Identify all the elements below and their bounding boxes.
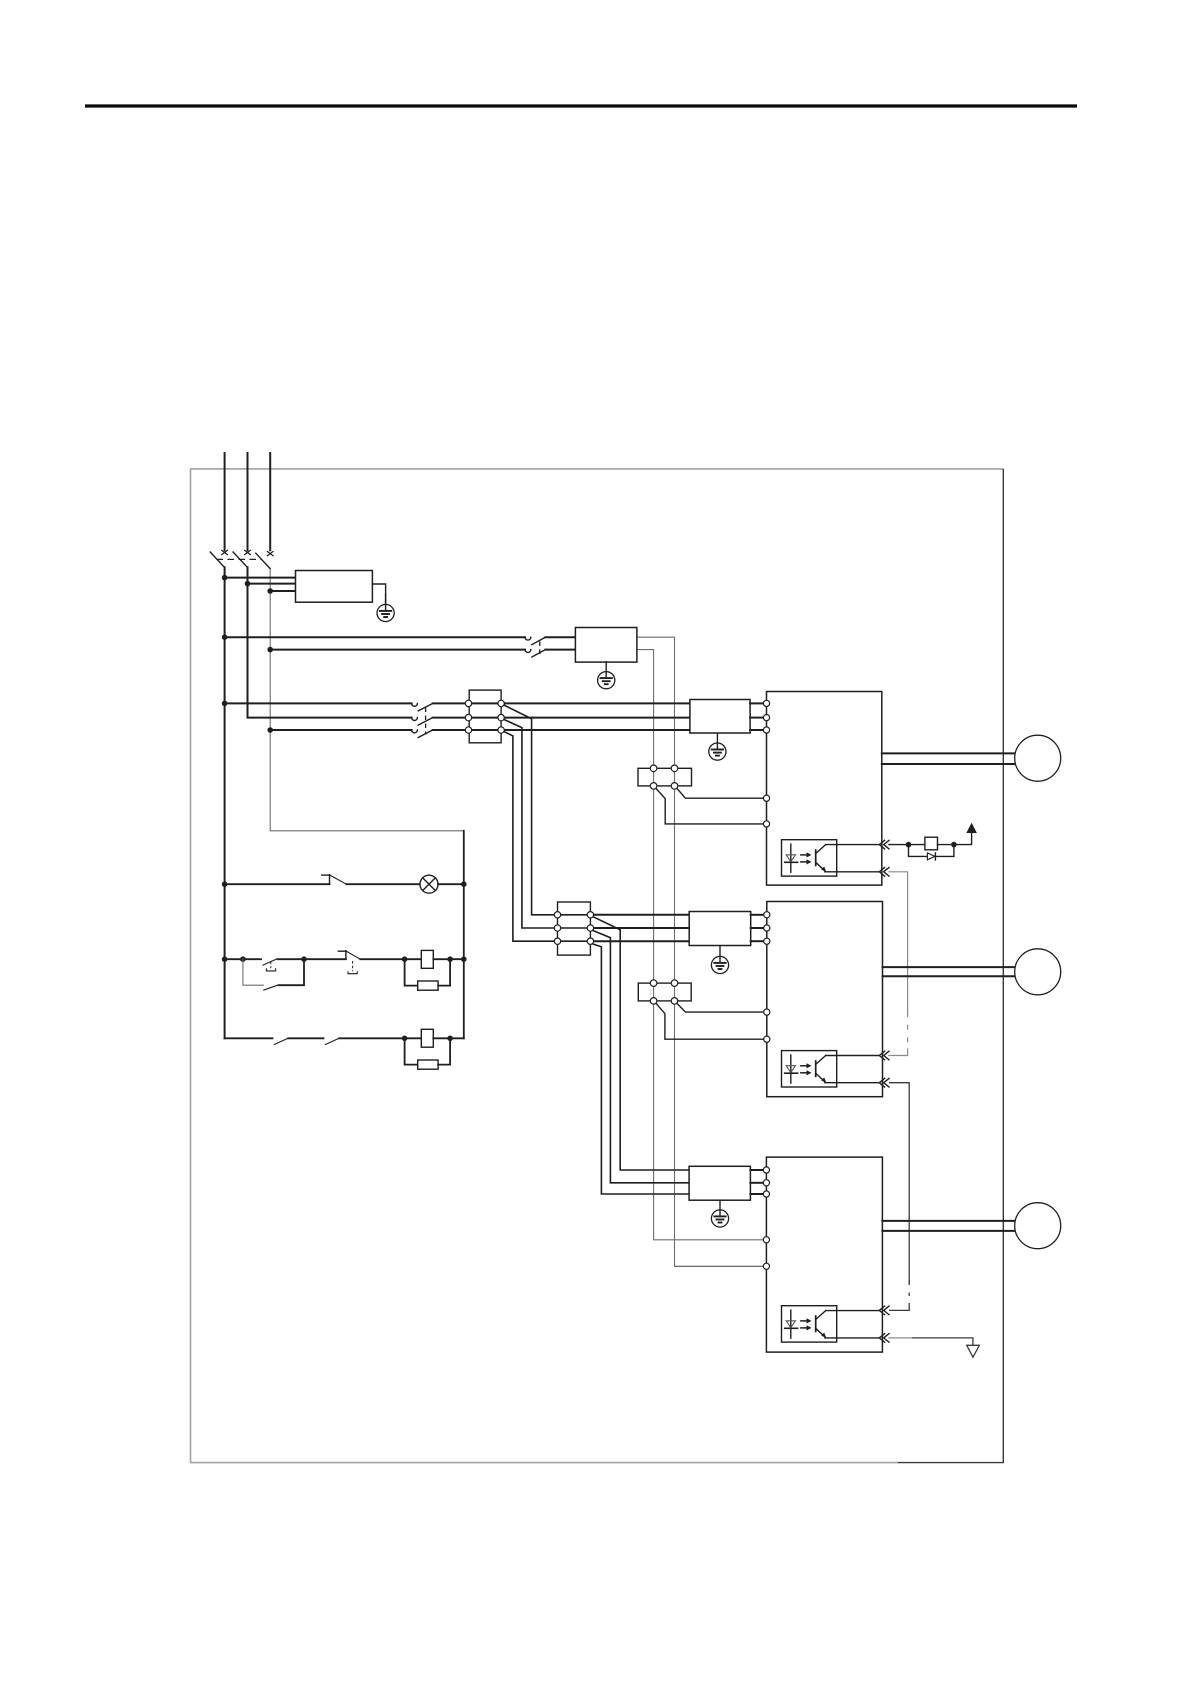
brake power supply unit [575, 628, 637, 663]
wire: brake supply cable A down to connector CN2 [674, 789, 676, 980]
row 3 wire middle 1 [288, 1037, 323, 1039]
TB1 terminal L1 in [465, 700, 471, 706]
power line L1 (top lead-in) [224, 453, 226, 550]
wire: A2 ALM- daisy link to A3 [889, 1083, 909, 1285]
relay coil RY1 [925, 837, 938, 850]
contactor KM2 pole 1 [525, 637, 575, 645]
wire: row B line 3 (L3 to contactor) [270, 729, 411, 731]
wire: SA2 to node [438, 1038, 450, 1064]
A1 terminal control 2 [763, 821, 769, 827]
input arrow A2 ALM+ [879, 1051, 889, 1060]
row 3 wire to coil [339, 1037, 421, 1039]
circuit breaker QF pole 1 [210, 550, 228, 567]
wire: RY1 to +24V [938, 833, 972, 844]
wire: A2 opto emitter to terminal [825, 1082, 880, 1084]
servo amplifier A3 [766, 1157, 882, 1352]
node: L2 filter tap [245, 581, 251, 587]
TB1 terminal out 3 [498, 727, 504, 733]
node: RY1 left [906, 842, 912, 848]
TB2 terminal in 2 [554, 925, 560, 931]
row 3 wire left [225, 1037, 273, 1039]
amplifier A3 filter box [689, 1166, 750, 1200]
row 2 wire left [225, 958, 261, 960]
node: L1 filter tap [222, 575, 228, 581]
splitter block TB2 [558, 902, 591, 955]
wire: A3 opto emitter to terminal [825, 1337, 880, 1339]
circuit breaker QF pole 2 [233, 550, 251, 567]
CN2 terminal bottom B [671, 998, 678, 1005]
flyback diode branch [909, 845, 927, 857]
A1 terminal L1 [763, 700, 769, 706]
A3 terminal L1 [763, 1167, 769, 1173]
node: row2 right rail [461, 956, 467, 962]
connector CN1 [638, 768, 692, 786]
node: row3 surge right [447, 1036, 453, 1042]
terminal block TB1 [469, 690, 501, 743]
input arrow A3 ALM- [879, 1334, 889, 1343]
wire: TB1 to amp1 filter line 2 [505, 717, 690, 719]
wire: A1 motor lead V [882, 763, 1016, 765]
node: row2 left rail [222, 956, 228, 962]
A2 terminal L2 [764, 925, 770, 931]
node: row2 branch left [240, 956, 246, 962]
wire: A1 opto collector to terminal [826, 844, 880, 846]
contactor KM1 pole 1 [412, 703, 505, 711]
ground: amp2 filter [711, 947, 728, 974]
wire: CN2 to amp2 control input 2 [656, 1004, 764, 1040]
wire: amp3 filter out 1 [750, 1169, 763, 1171]
flyback diode D1 [927, 853, 935, 860]
TB1 terminal L3 in [465, 727, 471, 733]
lamp row wire right [438, 883, 464, 885]
enclosure border (panel outline) [191, 469, 1004, 1463]
wire: control branch row A line 1 [225, 636, 525, 638]
ground: amp1 filter [709, 733, 726, 760]
NC contact S1 (lamp row) [322, 875, 347, 885]
A2 terminal control 1 [764, 1009, 770, 1015]
wire: CN1 to amp1 control input 1 [677, 789, 764, 799]
A1 terminal L2 [763, 715, 769, 721]
relay coil RY2 [421, 950, 433, 968]
lamp row wire left [225, 883, 330, 885]
row 3 wire right [433, 1037, 464, 1039]
TB1 terminal out 1 [498, 700, 504, 706]
power line L1 vertical (breaker to ladder) [224, 567, 226, 1038]
wire: SA1 to node [438, 959, 450, 985]
motor M3 [1015, 1203, 1061, 1249]
wire: A1 opto emitter to terminal [825, 871, 880, 873]
TB2 terminal out 3 [587, 938, 593, 944]
CN1 terminal top B [671, 765, 678, 772]
contactor KM2 pole 2 [525, 650, 575, 658]
wire: brake supply cable A through connector CN1 [674, 771, 676, 782]
surge absorber SA1 [418, 981, 438, 990]
wire: TB1 to amp1 filter line 1 [505, 702, 690, 704]
ground: amp3 filter [711, 1200, 728, 1227]
wire: TB1 to amp1 filter line 3 [505, 729, 690, 731]
wire: A1 ALM- daisy link to A2 [889, 872, 908, 1013]
opto coupler A1 output [782, 840, 837, 876]
wire: filter feed R [225, 577, 296, 579]
A3 terminal L3 [763, 1191, 769, 1197]
row 2 wire to coil [360, 958, 421, 960]
row 2 wire right [433, 958, 464, 960]
A3 terminal L2 [763, 1180, 769, 1186]
node: row3 surge left [402, 1036, 408, 1042]
pilot lamp PL [420, 875, 438, 893]
contactor coil KM [421, 1029, 433, 1047]
wire: A2 opto collector to terminal [826, 1055, 880, 1057]
power line L2 vertical (breaker to contactor) [248, 567, 412, 717]
ground: brake power supply [598, 662, 615, 689]
contactor KM2 linkage [539, 642, 541, 655]
amplifier A1 filter box [690, 700, 750, 734]
input arrow A3 ALM+ [879, 1306, 889, 1315]
header rule [85, 104, 1077, 107]
A2 terminal L1 [764, 912, 770, 918]
A1 terminal L3 [763, 727, 769, 733]
wire: brake supply cable A down to amplifier A3 [674, 1004, 676, 1266]
input arrow A1 ALM+ [879, 840, 889, 849]
node: L3 filter tap [267, 588, 273, 594]
0V signal ground [967, 1345, 980, 1357]
wire: TB2 to amp2 filter line 1 [594, 914, 689, 916]
wire: A1-A2 daisy dashed section [907, 1013, 909, 1049]
node: row B tap on L3 [267, 727, 273, 733]
circuit breaker QF linkage [217, 558, 262, 560]
surge absorber SA2 branch [405, 1038, 418, 1064]
wire: TB2 drop to amp3 phase R [593, 917, 689, 1170]
control rail right (from L3 feed) [463, 831, 465, 1039]
contactor KM1 pole 2 [412, 718, 505, 726]
circuit breaker QF pole 3 [256, 551, 274, 568]
node: row2 branch right [301, 956, 307, 962]
node: RY1 right [951, 842, 957, 848]
wire: TB2 drop to amp3 phase T [593, 944, 689, 1194]
CN2 terminal bottom A [650, 998, 657, 1005]
node: row2 surge left [402, 956, 408, 962]
wire: TB1 drop to TB2 phase T [504, 732, 594, 942]
wire: brake supply cable A through connector CN2 [674, 986, 676, 998]
noise filter FLT [296, 571, 373, 603]
pushbutton PB1 (start, NO) [263, 959, 278, 971]
node: lamp row left rail [222, 881, 228, 887]
ground: noise filter [377, 595, 394, 622]
node: row A tap on L3 [267, 647, 273, 653]
wire: A1-A2 daisy into A2 ALM+ [889, 1049, 908, 1056]
motor M1 [1015, 735, 1061, 781]
wire: A3 motor lead V [882, 1230, 1015, 1232]
wire: A2-A3 daisy into A3 ALM+ [889, 1303, 909, 1310]
wire: TB1 drop to TB2 phase S [504, 720, 594, 929]
opto coupler A3 output [782, 1306, 837, 1342]
wire: diode to RY1 right node [935, 845, 954, 857]
wire: CN2 to amp2 control input 1 [677, 1004, 764, 1013]
opto coupler A2 output [782, 1051, 837, 1087]
wire: TB1 drop to TB2 phase R [504, 705, 594, 915]
wire: A2-A3 daisy dashed section [908, 1280, 910, 1303]
relay coil RY1 circuit: wire from A1 ALM+ [889, 844, 925, 846]
wire: amp1 filter out 2 [750, 717, 763, 719]
wire: amp1 filter out 3 [750, 729, 763, 731]
wire: A3 motor lead U [882, 1220, 1015, 1222]
wire: amp3 filter out 2 [750, 1182, 763, 1184]
pushbutton PB2 (stop, NC) [338, 951, 360, 974]
wire: CN1 to amp1 control input 2 [656, 789, 763, 824]
CN1 terminal bottom A [650, 783, 657, 790]
contactor KM1 linkage [425, 708, 427, 735]
CN2 terminal top A [650, 980, 657, 987]
motor M2 [1015, 949, 1061, 995]
wire: row B line 1 (L1 to contactor) [225, 702, 412, 704]
TB2 terminal out 2 [587, 925, 593, 931]
+24V supply arrow [966, 823, 977, 833]
interlock contact K2 (row 3) [325, 1038, 340, 1045]
self-hold contact branch [243, 959, 304, 990]
TB2 terminal in 3 [554, 938, 560, 944]
amplifier A2 filter box [689, 912, 751, 946]
wire: filter feed T [270, 590, 295, 592]
wire: brake supply cable B down to connector CN2 [653, 789, 655, 980]
servo amplifier A2 [767, 902, 883, 1097]
wire: A3 opto collector to terminal [826, 1310, 880, 1312]
TB2 terminal in 1 [554, 912, 560, 918]
servo amplifier A1 [767, 692, 882, 886]
wire: A1 motor lead U [882, 752, 1016, 754]
wire: brake supply cable B through connector CN2 [653, 986, 655, 998]
wire: TB2 to amp2 filter line 2 [594, 927, 689, 929]
wire: brake supply cable A (outer) [637, 637, 675, 765]
wire: amp3 filter out 3 [750, 1193, 763, 1195]
wire: amp2 filter out 1 [751, 914, 764, 916]
TB1 terminal out 2 [498, 714, 504, 720]
wire: noise filter earth lead [372, 584, 385, 605]
input arrow A2 ALM- [879, 1078, 889, 1087]
wire: A3 ALM- to 0V [889, 1337, 912, 1339]
CN1 terminal bottom B [671, 783, 678, 790]
wire: amp2 filter out 3 [751, 940, 764, 942]
surge absorber SA1 branch [405, 959, 418, 985]
node: row B tap on L1 [222, 701, 228, 707]
contactor KM1 pole 3 [412, 730, 505, 738]
connector CN2 [638, 983, 691, 1001]
power line L3 (top lead-in) [269, 453, 271, 550]
row 2 wire middle [278, 958, 346, 960]
wire: control branch row A line 2 [270, 649, 525, 651]
A3 terminal control 1 [763, 1237, 769, 1243]
lamp row wire middle [346, 883, 420, 885]
node: row2 surge right [447, 956, 453, 962]
wire: TB2 to amp2 filter line 3 [594, 940, 689, 942]
A2 terminal control 2 [764, 1036, 770, 1042]
A2 terminal L3 [764, 938, 770, 944]
power line L2 (top lead-in) [247, 453, 249, 550]
wire: amp2 filter out 2 [751, 927, 764, 929]
wire: A2 motor lead V [883, 975, 1016, 977]
wire: amp1 filter out 1 [750, 702, 763, 704]
surge absorber SA2 [418, 1060, 438, 1069]
wire: phase L3 thin feed down to control rail [270, 569, 464, 831]
wire: brake supply cable B (inner) [637, 650, 654, 766]
wire: brake supply cable B through connector CN1 [653, 771, 655, 782]
node: row A tap on L1 [222, 634, 228, 640]
A3 terminal control 2 [763, 1263, 769, 1269]
TB2 terminal out 1 [587, 912, 593, 918]
TB1 terminal L2 in [465, 714, 471, 720]
wire: filter feed S [248, 583, 296, 585]
input arrow A1 ALM- [879, 868, 889, 877]
wire: brake supply cable B down to amplifier A3 [654, 1004, 764, 1240]
wire: TB2 drop to amp3 phase S [593, 931, 689, 1183]
wire: A2 motor lead U [883, 966, 1016, 968]
interlock contact K1 (row 3) [274, 1038, 289, 1045]
CN2 terminal top B [671, 980, 678, 987]
A1 terminal control 1 [763, 795, 769, 801]
node: lamp row right rail [461, 881, 467, 887]
CN1 terminal top A [650, 765, 657, 772]
